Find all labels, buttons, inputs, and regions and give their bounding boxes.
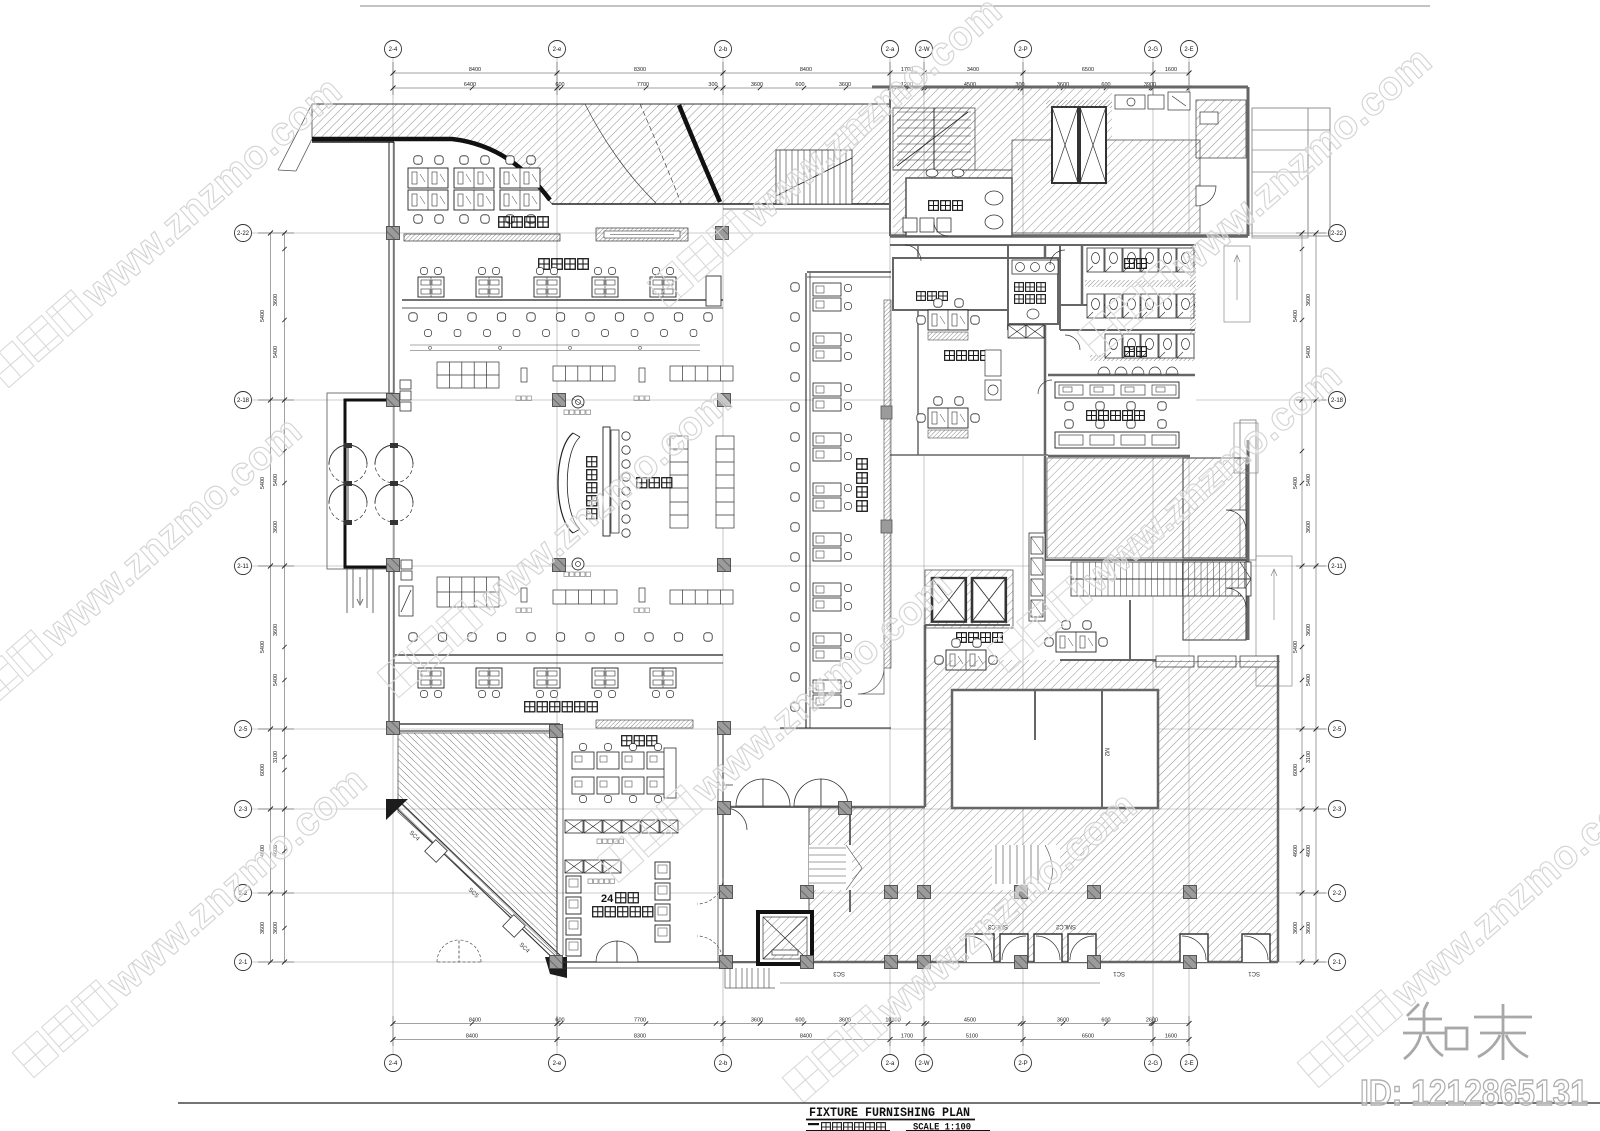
svg-text:2-E: 2-E [1184,1061,1193,1067]
svg-text:2-5: 2-5 [1333,727,1342,733]
thick facade band [312,139,550,200]
svg-text:2600: 2600 [1146,1018,1158,1024]
svg-text:2-G: 2-G [1148,47,1158,53]
form tables grid top row [437,362,733,388]
big hatch bottom right [809,660,1278,962]
svg-text:5400: 5400 [1293,310,1299,322]
cleaning room 清洁间 [893,258,1008,310]
tiny rotated door labels SC [408,748,1260,976]
svg-text:SC1: SC1 [1113,970,1125,976]
svg-text:4500: 4500 [964,1018,976,1024]
title block rule [178,1102,1600,1104]
svg-text:3600: 3600 [1293,922,1299,934]
right edge walkway outlines [1224,150,1308,686]
waiting counter vertical [805,273,807,728]
svg-text:SC3: SC3 [833,970,845,976]
svg-text:2-11: 2-11 [237,564,249,570]
hatched sill below office [404,234,560,241]
svg-text:4600: 4600 [1306,845,1312,857]
fan stair center [992,845,1060,890]
door MLC10 top right [1196,186,1216,206]
svg-text:5400: 5400 [273,346,279,358]
thin canopy arcs [585,104,656,203]
svg-text:M2: M2 [1103,748,1109,757]
svg-text:2-5: 2-5 [239,727,248,733]
watermark strings [0,68,350,393]
svg-text:300: 300 [708,82,717,88]
BFHM1 cabinets [1029,533,1045,621]
structural grid lines [252,58,1332,1054]
svg-text:5400: 5400 [1293,477,1299,489]
main left wall lower [388,569,390,731]
desks lower right offices [946,650,986,670]
corner triangle column NW [386,799,408,820]
svg-text:6400: 6400 [464,82,476,88]
svg-text:7700: 7700 [634,1018,646,1024]
svg-text:600: 600 [555,82,564,88]
fan stair left [809,845,862,890]
accessible wc 无障碍卫生间 [1008,258,1058,324]
svg-text:5400: 5400 [260,641,266,653]
form filling counter 填表区 [603,427,610,536]
subtitle 一层平面布置图 [808,1123,819,1125]
svg-text:600: 600 [1101,1018,1110,1024]
svg-text:3600: 3600 [751,82,763,88]
svg-text:2-a: 2-a [886,47,895,53]
svg-text:1700: 1700 [901,1034,913,1040]
back office desks [408,168,448,188]
stair top-right [893,108,975,170]
canopy left end [278,104,312,171]
ATM machines right column [655,862,670,879]
womens wc 女卫 stalls row1 [1087,248,1104,272]
room right with door MLC10 [1183,458,1246,558]
svg-text:8400: 8400 [469,1018,481,1024]
JPHM1 door arc corridor [725,808,747,830]
svg-text:5400: 5400 [273,474,279,486]
corner triangle column SE [545,957,567,978]
svg-text:1600: 1600 [1165,67,1177,73]
hatched plant area top-right [1012,140,1200,233]
svg-text:1600: 1600 [1165,1034,1177,1040]
label 办理窗口 [539,259,589,270]
form tables grid bottom row [437,577,733,607]
waiting workstation clusters [813,283,841,311]
elevators middle pair [925,570,1013,628]
svg-text:600: 600 [795,82,804,88]
hatched wall strip right of toilets [1190,245,1196,335]
hatched counter top of help zone [596,720,693,728]
customer chairs row [409,313,417,321]
svg-text:2-e: 2-e [553,47,562,53]
svg-text:5100: 5100 [966,1034,978,1040]
vertical form table strips [670,436,734,528]
svg-text:24: 24 [601,893,614,905]
svg-text:2-4: 2-4 [389,1061,398,1067]
long stair right [1071,562,1251,596]
wash basins [1012,260,1058,274]
revolving doors [329,445,413,522]
queue ticket machines left [399,380,413,616]
svg-text:2-G: 2-G [1148,1061,1158,1067]
queue rails [410,345,700,351]
svg-text:3400: 3400 [967,67,979,73]
big hatch right-middle [1047,458,1183,558]
svg-text:5400: 5400 [1293,641,1299,653]
mens wc 男卫 stalls [1105,334,1122,358]
main left wall upper [388,142,390,393]
svg-text:2-b: 2-b [719,47,728,53]
svg-text:2-22: 2-22 [237,231,250,237]
door niches right SMLC [1180,934,1270,962]
extra partition walls toilets [1008,245,1060,330]
diagonal wall SC4 [392,804,561,966]
womens wc stalls row2 [1087,294,1104,318]
ATM machines left column [566,876,581,893]
svg-text:8300: 8300 [634,1034,646,1040]
consultation curved desk 咨询引导台 [558,433,573,533]
svg-text:2-E: 2-E [1184,47,1193,53]
door arcs bottom of 24h zone [596,941,617,962]
svg-text:2-a: 2-a [886,1061,895,1067]
svg-text:3600: 3600 [273,922,279,934]
door niches bottom SMLC [966,934,1096,962]
svg-text:6000: 6000 [1293,764,1299,776]
svg-text:8400: 8400 [466,1034,478,1040]
svg-text:SCALE 1:100: SCALE 1:100 [913,1122,971,1131]
svg-text:2-W: 2-W [919,1061,930,1067]
svg-text:2-3: 2-3 [239,807,248,813]
columns [387,227,400,240]
canopy top edge [312,103,890,105]
wall top of hall [312,141,394,143]
znzmo logo 末 [1474,1004,1532,1060]
24h zone walls [556,731,558,957]
svg-text:SC1: SC1 [1248,970,1260,976]
teller stations [418,277,444,297]
bottom counter 综合办理窗口 [395,654,723,656]
back office upper-right 后台办公 [928,310,968,330]
svg-text:8400: 8400 [469,67,481,73]
urinals [1098,367,1110,374]
right middle walls [925,440,1248,807]
queue number machines small [521,368,645,602]
svg-text:2-2: 2-2 [1333,891,1342,897]
pantry fixtures top [1115,92,1246,158]
svg-text:ID: 1212865131: ID: 1212865131 [1360,1072,1588,1113]
hatched exterior triangle [398,733,557,957]
corridor white [725,808,809,961]
lobby walls bottom center [723,655,1278,962]
svg-text:3600: 3600 [1306,624,1312,636]
top edge line of adjacent sheet [360,5,1430,7]
svg-text:8400: 8400 [800,1034,812,1040]
svg-text:2-1: 2-1 [239,960,248,966]
stair ticks below bottom wall [725,968,1100,988]
svg-text:FIXTURE FURNISHING PLAN: FIXTURE FURNISHING PLAN [809,1106,970,1120]
canopy bottom wall [552,203,890,205]
security counter hatched [596,228,688,241]
waiting chairs left column [791,283,799,291]
stair in band [776,150,852,204]
svg-text:7700: 7700 [637,82,649,88]
fire control room 消防监控室 consoles [1055,382,1179,398]
svg-text:3100: 3100 [1306,751,1312,763]
subdivision ticks [282,86,1304,1026]
svg-text:600: 600 [795,1018,804,1024]
nursing room 母婴室 [906,178,1012,236]
svg-text:3600: 3600 [751,1018,763,1024]
svg-text:6500: 6500 [1082,1034,1094,1040]
svg-text:2-P: 2-P [1018,47,1027,53]
svg-text:5400: 5400 [1306,346,1312,358]
help desks cluster [572,752,594,769]
svg-text:2-11: 2-11 [1331,564,1343,570]
label 女卫 [1125,259,1135,269]
elevators top [1052,107,1106,183]
right balcony outline [1240,108,1330,560]
svg-text:5400: 5400 [273,674,279,686]
double swing doors to hall [736,779,848,806]
svg-text:3600: 3600 [273,624,279,636]
label 填表区 [637,478,647,488]
svg-text:8400: 8400 [800,67,812,73]
svg-text:5400: 5400 [1306,474,1312,486]
entrance ramp [347,569,373,613]
svg-text:2-3: 2-3 [1333,807,1342,813]
top-right block outer walls [872,87,1248,456]
svg-text:6000: 6000 [260,764,266,776]
svg-text:600: 600 [555,1018,564,1024]
hatch underlay stair corner [893,88,1012,236]
svg-text:2-e: 2-e [553,1061,562,1067]
svg-text:3600: 3600 [273,521,279,533]
label 综合办理窗口 [525,702,535,712]
entrance vestibule outline [327,393,394,569]
door arcs block [905,222,1080,394]
svg-text:2-P: 2-P [1018,1061,1027,1067]
customer chairs above bottom counter [409,633,417,641]
svg-text:3600: 3600 [1057,1018,1069,1024]
dimension lines top [258,62,1326,1046]
hatched wall right of strip [884,300,891,668]
room label 后台办公 [499,217,549,228]
white base rooms top-right block [893,236,1196,456]
room with door MLC9 [1183,560,1246,640]
copier niche [985,350,1001,400]
znzmo logo 知 [1403,1002,1532,1060]
label 咨询引导台 vertical [587,457,597,467]
self pickup cabinets row1 [565,820,583,833]
guide robot top [572,396,584,408]
svg-text:8300: 8300 [634,67,646,73]
waiting strip walls [807,271,891,273]
svg-text:3600: 3600 [1306,922,1312,934]
tiny labels 叫号机 [516,396,650,613]
svg-text:2-18: 2-18 [237,398,250,404]
guide robot bottom [572,558,584,570]
svg-text:3600: 3600 [839,82,851,88]
grid axis bubbles top [235,41,1346,1072]
svg-text:2-4: 2-4 [389,47,398,53]
svg-text:3600: 3600 [273,294,279,306]
svg-text:3100: 3100 [273,751,279,763]
svg-text:2-b: 2-b [719,1061,728,1067]
svg-text:2-22: 2-22 [1331,231,1344,237]
svg-text:4600: 4600 [1293,845,1299,857]
label 后台办公 [945,351,955,361]
svg-text:3600: 3600 [1306,521,1312,533]
svg-text:2-1: 2-1 [1333,960,1342,966]
teller stations below [418,668,444,688]
service elevator black [758,912,812,964]
south wall of hall [393,723,560,725]
svg-text:3600: 3600 [1306,294,1312,306]
window row YFHC1 [1152,656,1280,667]
entrance thick walls [345,400,392,567]
svg-text:6500: 6500 [1082,67,1094,73]
label 消防监控室 [1087,411,1097,421]
hatched canopy band top [312,104,890,204]
label 男卫 [1125,347,1135,357]
back office lower 后台办公 label [957,633,967,643]
svg-text:3600: 3600 [260,922,266,934]
white room in hatch M2 [952,690,1158,808]
help desk area 帮您办 label [622,736,632,746]
svg-text:SMLC2: SMLC2 [1055,923,1076,929]
thick facade arc 2 [679,105,720,202]
self pickup cabinets row2 [565,860,583,873]
svg-text:5400: 5400 [260,310,266,322]
teller counter top [402,299,723,301]
svg-text:5400: 5400 [1306,674,1312,686]
label 办理窗口 vertical [857,459,868,470]
